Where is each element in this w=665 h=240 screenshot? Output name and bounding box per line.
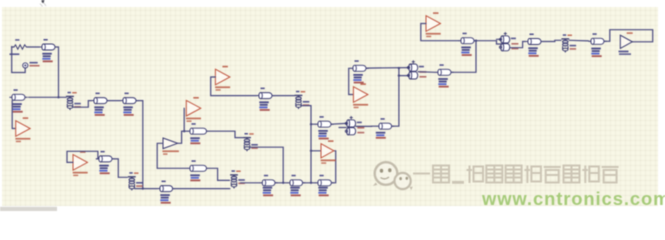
- transmission line TL10: [315, 116, 333, 139]
- wire TL8 to via V4: [209, 168, 229, 180]
- wire source loop left/bottom: [12, 47, 26, 73]
- transmission line TL13: [588, 33, 606, 57]
- wire source loop top-left: [12, 46, 14, 48]
- wire TL6 to stack S3: [474, 41, 500, 44]
- grey artifact bar bottom-left: [0, 207, 57, 211]
- coupled-line stack S3: [499, 32, 518, 51]
- junction chain4: [310, 123, 312, 125]
- probe triangle U2 probe: [73, 151, 88, 176]
- wire stub stack S2 lower port: [339, 127, 346, 129]
- wire TLa to via V5: [272, 95, 294, 97]
- junction from via V3: [282, 182, 284, 184]
- coupled-line stack S4: [407, 60, 426, 79]
- probe triangle U1 tx driver: [15, 117, 30, 142]
- transmission line TLa: [256, 88, 274, 111]
- wire TL18 up to amp U8: [332, 151, 336, 183]
- svg-text:www.cntronics.com: www.cntronics.com: [481, 188, 665, 209]
- wire TL14 up to top chain: [451, 41, 476, 73]
- junction chain6 B: [398, 74, 400, 76]
- via V4: [230, 170, 245, 188]
- amplifier U7: [619, 32, 633, 55]
- junction U8 tap: [310, 150, 312, 152]
- transmission line TL16: [260, 175, 278, 196]
- wire TL2 to via V1: [29, 96, 67, 98]
- transmission line TL9: [157, 181, 175, 204]
- probe triangle U5 probe: [215, 66, 230, 91]
- wire probe U2 to TL5: [67, 151, 98, 162]
- wire TL4 down long vertical to bottom chain: [136, 101, 143, 189]
- wire TL5 down to via V2: [112, 159, 127, 177]
- wire junction to stack S4 lower port: [399, 75, 409, 77]
- junction node A: [57, 96, 59, 98]
- transmission line TL15: [525, 34, 543, 57]
- via V2: [128, 172, 143, 190]
- wire TL9 to via V4: [173, 188, 230, 190]
- coupled-line stack S2: [345, 116, 364, 135]
- wire TL15 to via V6: [541, 40, 561, 41]
- transmission line TL14: [435, 64, 453, 87]
- junction bottom chain: [310, 182, 312, 184]
- amplifier U3: [162, 138, 179, 155]
- wire via V4 to TL16: [241, 182, 260, 184]
- wire via V5 long vertical down: [302, 106, 312, 183]
- via V3: [243, 133, 258, 151]
- watermark wechat icon: [373, 162, 413, 190]
- transmission line TL1: [39, 39, 57, 62]
- probe triangle U8 receiver: [321, 140, 336, 164]
- wire probe to TL6: [421, 24, 459, 41]
- wire TL1 to node A (vertical): [56, 47, 59, 97]
- junction long vertical meets bottom wire: [142, 187, 144, 189]
- wire TL3 to TL4: [107, 100, 120, 102]
- junction U4 tap: [183, 130, 185, 132]
- wire U3 apex up to TL7: [178, 131, 188, 143]
- probe triangle U5b probe: [426, 12, 441, 37]
- wire via V2 to TL9: [135, 188, 157, 190]
- wire stack S3 to TL15: [510, 42, 525, 48]
- resistor R1: [10, 39, 27, 55]
- wire U3 left to TL8: [157, 143, 187, 168]
- watermark text 一博_看得懂的高速设计: [413, 166, 619, 184]
- transmission line TL18: [315, 175, 334, 196]
- wire probe U5 to TLa: [211, 77, 257, 96]
- wire junction to TL10: [311, 123, 315, 125]
- wire TL12 left down to probe U6: [349, 68, 354, 94]
- transmission line TL6: [458, 33, 476, 56]
- wire TL16 to TL17: [275, 182, 287, 184]
- transmission line TL7: [187, 123, 209, 144]
- wire TL12 to stack S4: [366, 67, 408, 70]
- stray cursor glyph: [42, 0, 45, 3]
- wire junction tap to amp U8: [311, 150, 321, 152]
- junction top chain: [475, 40, 477, 42]
- transmission line TL4: [120, 93, 138, 116]
- transmission line TL17: [287, 175, 305, 196]
- wire stub stack S3 upper port: [497, 38, 501, 40]
- wire stack S4 to TL14: [418, 71, 435, 74]
- wire TL11 up to chain 6: [392, 68, 399, 126]
- via V1: [66, 92, 81, 110]
- probe triangle U4 probe: [186, 97, 201, 122]
- via V5: [295, 91, 310, 109]
- wire TL2 down to tx driver: [12, 101, 16, 129]
- source V1: [23, 62, 40, 68]
- wire TL10 to stack S2: [331, 122, 346, 125]
- transmission line TL5: [96, 151, 114, 174]
- wire via V1 to TL3: [74, 101, 92, 108]
- transmission line TL3: [91, 93, 109, 116]
- wire TL7 to via V3: [209, 131, 243, 137]
- junction chain6 A: [398, 67, 400, 69]
- wire stack S2 to TL11: [356, 125, 376, 127]
- wire via V6 to TL13: [569, 39, 588, 42]
- transmission line TL2: [9, 89, 27, 112]
- transmission line TL8: [187, 160, 209, 181]
- wire R1 to TL1: [27, 46, 40, 48]
- wire via V3 down to bottom chain: [250, 147, 284, 183]
- wire TL13 over to amp U7: [604, 30, 653, 42]
- via V6: [561, 34, 576, 52]
- transmission line TL12: [350, 60, 368, 83]
- wire probe U4 tap: [183, 108, 185, 131]
- wire TL17 to TL18: [303, 182, 316, 184]
- probe triangle U6 probe: [353, 83, 368, 108]
- transmission line TL11: [376, 118, 394, 139]
